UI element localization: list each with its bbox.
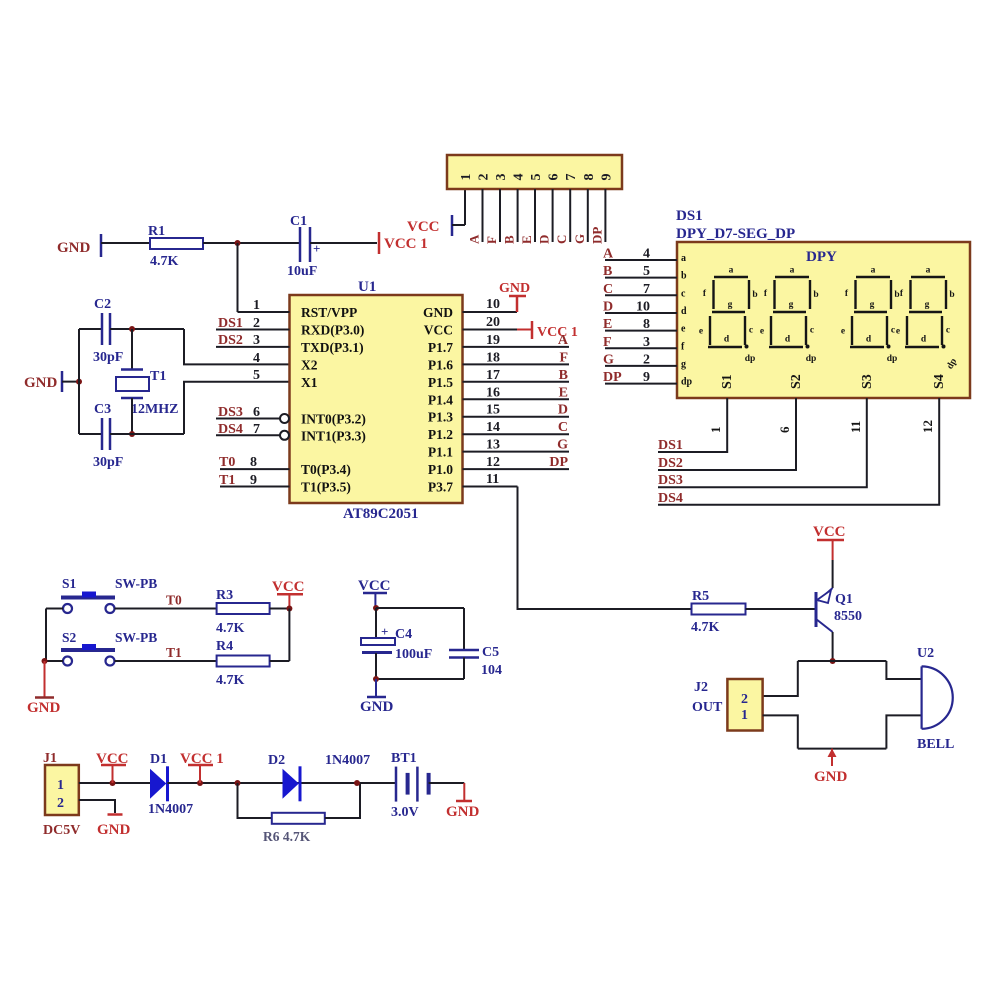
wire (X1 path) xyxy=(110,433,184,435)
svg-text:1N4007: 1N4007 xyxy=(148,802,193,817)
resistor R4 xyxy=(217,656,270,667)
svg-text:12: 12 xyxy=(920,420,935,433)
svg-text:C: C xyxy=(603,282,613,297)
svg-text:4: 4 xyxy=(253,351,260,366)
pin 1 wire (RST) xyxy=(238,311,290,313)
wire pin 2 xyxy=(482,189,484,242)
svg-text:P1.6: P1.6 xyxy=(428,357,453,372)
svg-text:4.7K: 4.7K xyxy=(150,254,179,269)
svg-text:3.0V: 3.0V xyxy=(391,805,419,820)
svg-text:T0: T0 xyxy=(166,593,182,608)
svg-text:12: 12 xyxy=(486,455,500,470)
svg-text:P1.0: P1.0 xyxy=(428,462,453,477)
svg-text:dp: dp xyxy=(745,354,756,364)
svg-text:8: 8 xyxy=(582,174,597,181)
wire (J1 pin1) xyxy=(79,782,150,784)
svg-text:a: a xyxy=(790,266,795,276)
pin 16 wire / net E xyxy=(463,398,570,400)
wire pin 3 xyxy=(499,189,501,242)
wire (J2 pin1) xyxy=(763,715,798,748)
ground GND (switches) xyxy=(44,661,46,697)
svg-text:8: 8 xyxy=(643,317,650,332)
svg-text:BT1: BT1 xyxy=(391,751,417,766)
svg-text:S1: S1 xyxy=(62,576,77,591)
svg-text:19: 19 xyxy=(486,333,500,348)
node xyxy=(76,379,82,385)
svg-text:B: B xyxy=(559,368,568,383)
wire (X2 path) xyxy=(184,329,289,364)
wire xyxy=(101,242,150,244)
pin 17 wire / net B xyxy=(463,381,570,383)
display input wire G pin 2 xyxy=(605,365,677,367)
crystal T1 xyxy=(121,368,143,371)
node xyxy=(110,780,116,786)
svg-text:B: B xyxy=(603,264,612,279)
svg-text:VCC: VCC xyxy=(272,579,305,595)
pin 12 wire / net DP xyxy=(463,468,570,470)
display DS1 body xyxy=(677,242,970,398)
svg-text:3: 3 xyxy=(494,174,509,181)
svg-text:4.7K: 4.7K xyxy=(216,621,245,636)
wire pin 5 xyxy=(534,189,536,242)
svg-text:DP: DP xyxy=(603,370,622,385)
svg-text:G: G xyxy=(572,234,587,244)
wire (VCC rail down) xyxy=(288,609,290,662)
power port VCC (J1) xyxy=(112,765,114,783)
wire (top rail) xyxy=(798,660,887,662)
svg-text:X2: X2 xyxy=(301,357,318,372)
svg-text:R3: R3 xyxy=(216,588,233,603)
svg-text:A: A xyxy=(558,333,569,348)
connector J2 xyxy=(727,679,762,731)
svg-text:GND: GND xyxy=(423,305,453,320)
wire xyxy=(746,608,817,610)
pin 20 wire + VCC1 port xyxy=(463,329,518,331)
svg-text:S2: S2 xyxy=(789,374,804,389)
power port VCC1 (after C1) xyxy=(378,232,381,254)
svg-text:VCC: VCC xyxy=(407,219,440,235)
svg-text:T1: T1 xyxy=(166,645,182,660)
wire xyxy=(429,782,465,784)
svg-text:b: b xyxy=(681,271,687,282)
svg-text:T0: T0 xyxy=(219,455,235,470)
svg-text:GND: GND xyxy=(446,804,480,820)
svg-text:A: A xyxy=(467,234,482,244)
resistor R6 xyxy=(272,813,325,824)
svg-text:12MHZ: 12MHZ xyxy=(131,402,178,417)
svg-text:T1(P3.5): T1(P3.5) xyxy=(301,480,351,495)
svg-text:1N4007: 1N4007 xyxy=(325,753,370,768)
svg-text:e: e xyxy=(681,324,686,335)
svg-text:OUT: OUT xyxy=(692,700,723,715)
pin 10 wire + GND port xyxy=(463,311,518,313)
svg-text:TXD(P3.1): TXD(P3.1) xyxy=(301,340,364,355)
svg-text:+: + xyxy=(381,624,388,639)
svg-text:5: 5 xyxy=(643,264,650,279)
svg-text:U2: U2 xyxy=(917,646,934,661)
svg-text:30pF: 30pF xyxy=(93,455,123,470)
svg-text:P1.5: P1.5 xyxy=(428,375,453,390)
wire xyxy=(376,607,464,609)
svg-text:5: 5 xyxy=(529,174,544,181)
svg-text:C: C xyxy=(558,420,568,435)
svg-text:DS2: DS2 xyxy=(658,456,683,471)
svg-text:a: a xyxy=(871,266,876,276)
svg-text:18: 18 xyxy=(486,350,500,365)
node xyxy=(235,780,241,786)
wire (J1 pin2 to GND) xyxy=(79,800,115,813)
svg-text:b: b xyxy=(752,290,757,300)
svg-text:10uF: 10uF xyxy=(287,264,317,279)
svg-text:C5: C5 xyxy=(482,645,499,660)
pin 18 wire / net F xyxy=(463,363,570,365)
wire xyxy=(62,381,79,383)
svg-text:S2: S2 xyxy=(62,630,77,645)
svg-text:D: D xyxy=(537,235,552,244)
svg-text:DS3: DS3 xyxy=(658,473,683,488)
svg-text:E: E xyxy=(603,317,612,332)
wire (top) xyxy=(79,328,102,330)
svg-text:DPY: DPY xyxy=(806,249,837,265)
svg-text:D: D xyxy=(558,403,568,418)
svg-text:14: 14 xyxy=(486,420,500,435)
svg-text:2: 2 xyxy=(57,796,64,811)
svg-text:R6 4.7K: R6 4.7K xyxy=(263,829,311,844)
svg-text:INT1(P3.3): INT1(P3.3) xyxy=(301,428,366,443)
wire S3 xyxy=(658,398,867,487)
7-segment digit 1 xyxy=(699,266,758,349)
capacitor C2 xyxy=(101,313,104,345)
svg-text:7: 7 xyxy=(564,174,579,181)
wire xyxy=(46,660,63,662)
display input wire B pin 5 xyxy=(605,277,677,279)
svg-text:13: 13 xyxy=(486,438,500,453)
wire S1 xyxy=(658,398,727,452)
resistor R5 xyxy=(692,604,746,615)
svg-text:5: 5 xyxy=(253,368,260,383)
svg-text:E: E xyxy=(559,385,568,400)
pin 11 wire (P3.7) xyxy=(463,486,518,488)
svg-text:VCC 1: VCC 1 xyxy=(180,751,224,767)
svg-text:G: G xyxy=(603,352,614,367)
svg-text:100uF: 100uF xyxy=(395,647,432,662)
wire xyxy=(270,608,290,610)
wire xyxy=(310,242,377,244)
node xyxy=(373,605,379,611)
wire (left rail) xyxy=(78,329,80,434)
diode D1 1N4007 xyxy=(150,769,166,799)
svg-text:dp: dp xyxy=(887,354,898,364)
svg-text:3: 3 xyxy=(643,335,650,350)
capacitor C3 xyxy=(101,418,104,450)
svg-text:b: b xyxy=(949,290,954,300)
svg-text:e: e xyxy=(699,327,703,337)
svg-text:DC5V: DC5V xyxy=(43,823,80,838)
wire xyxy=(203,242,300,244)
svg-text:15: 15 xyxy=(486,403,500,418)
wire S4 xyxy=(658,398,939,505)
display input wire E pin 8 xyxy=(605,330,677,332)
svg-text:GND: GND xyxy=(24,375,58,391)
svg-text:8: 8 xyxy=(250,455,257,470)
svg-text:e: e xyxy=(760,327,764,337)
wire xyxy=(131,329,133,369)
svg-text:4: 4 xyxy=(512,174,527,181)
svg-text:g: g xyxy=(870,300,875,310)
svg-text:R4: R4 xyxy=(216,639,233,654)
svg-text:2: 2 xyxy=(741,692,748,707)
wire xyxy=(270,660,290,662)
svg-text:b: b xyxy=(813,290,818,300)
wire xyxy=(168,782,397,784)
svg-text:c: c xyxy=(810,326,814,336)
node xyxy=(42,658,48,664)
svg-text:C4: C4 xyxy=(395,627,412,642)
svg-text:S1: S1 xyxy=(720,374,735,389)
node xyxy=(129,431,135,437)
svg-text:DP: DP xyxy=(589,227,604,244)
svg-text:DPY_D7-SEG_DP: DPY_D7-SEG_DP xyxy=(676,226,795,242)
transistor Q1 8550 (PNP) xyxy=(815,592,818,627)
svg-text:d: d xyxy=(785,335,791,345)
svg-text:d: d xyxy=(921,335,927,345)
capacitor C5 104 xyxy=(449,649,479,652)
wire xyxy=(115,660,217,662)
svg-text:VCC: VCC xyxy=(813,524,846,540)
svg-text:g: g xyxy=(728,300,733,310)
display input wire D pin 10 xyxy=(605,312,677,314)
svg-text:T0(P3.4): T0(P3.4) xyxy=(301,462,351,477)
svg-text:16: 16 xyxy=(486,385,500,400)
svg-text:1: 1 xyxy=(741,708,748,723)
node (collector) xyxy=(830,658,836,664)
svg-text:A: A xyxy=(603,247,614,262)
svg-text:4: 4 xyxy=(643,247,650,262)
node xyxy=(354,780,360,786)
svg-text:P1.1: P1.1 xyxy=(428,445,453,460)
svg-text:P3.7: P3.7 xyxy=(428,480,453,495)
svg-text:D: D xyxy=(603,300,613,315)
svg-text:a: a xyxy=(681,253,686,264)
svg-text:dp: dp xyxy=(806,354,817,364)
svg-text:GND: GND xyxy=(97,822,131,838)
wire xyxy=(115,608,217,610)
svg-text:GND: GND xyxy=(499,281,530,296)
svg-text:R5: R5 xyxy=(692,589,709,604)
svg-text:U1: U1 xyxy=(358,279,376,295)
svg-text:Q1: Q1 xyxy=(835,592,853,607)
pin 19 wire / net A xyxy=(463,346,570,348)
svg-text:g: g xyxy=(681,359,686,370)
diode D2 1N4007 xyxy=(283,769,299,799)
svg-text:GND: GND xyxy=(360,699,394,715)
svg-text:a: a xyxy=(729,266,734,276)
svg-text:AT89C2051: AT89C2051 xyxy=(343,506,419,522)
svg-text:B: B xyxy=(502,235,517,244)
ground GND (bell) xyxy=(831,749,833,766)
svg-text:9: 9 xyxy=(599,174,614,181)
svg-text:F: F xyxy=(559,350,568,365)
svg-text:d: d xyxy=(866,335,872,345)
svg-text:d: d xyxy=(681,306,687,317)
svg-text:D2: D2 xyxy=(268,753,285,768)
svg-text:4.7K: 4.7K xyxy=(691,620,720,635)
wire pin 9 xyxy=(604,189,606,242)
wire xyxy=(131,398,133,434)
svg-text:104: 104 xyxy=(481,663,502,678)
svg-text:7: 7 xyxy=(643,282,650,297)
svg-text:8550: 8550 xyxy=(834,609,862,624)
svg-text:DS4: DS4 xyxy=(658,491,683,506)
wire xyxy=(832,560,834,588)
svg-text:DS1: DS1 xyxy=(658,438,683,453)
svg-text:P1.4: P1.4 xyxy=(428,392,453,407)
svg-text:2: 2 xyxy=(643,352,650,367)
svg-text:17: 17 xyxy=(486,368,500,383)
svg-text:1: 1 xyxy=(57,778,64,793)
svg-text:dp: dp xyxy=(681,377,693,388)
wire (R6 branch left) xyxy=(238,783,272,818)
svg-text:C1: C1 xyxy=(290,214,307,229)
pin 13 wire / net G xyxy=(463,451,570,453)
ground GND (battery) xyxy=(463,783,465,800)
wire (bottom) xyxy=(79,433,102,435)
wire (S rail) xyxy=(45,609,47,662)
svg-text:S3: S3 xyxy=(860,374,875,389)
svg-text:4.7K: 4.7K xyxy=(216,673,245,688)
svg-text:GND: GND xyxy=(814,769,848,785)
svg-text:J2: J2 xyxy=(694,680,708,695)
svg-text:c: c xyxy=(749,326,753,336)
svg-text:g: g xyxy=(789,300,794,310)
power port VCC1 (J1 row) xyxy=(199,765,201,783)
svg-text:E: E xyxy=(519,235,534,244)
svg-text:P1.2: P1.2 xyxy=(428,427,453,442)
svg-text:VCC: VCC xyxy=(424,323,453,338)
svg-text:11: 11 xyxy=(848,421,863,433)
svg-text:1: 1 xyxy=(708,427,723,434)
svg-text:T1: T1 xyxy=(150,369,166,384)
svg-text:2: 2 xyxy=(477,174,492,181)
node xyxy=(373,676,379,682)
svg-text:DS1: DS1 xyxy=(676,208,703,224)
wire pin 6 xyxy=(552,189,554,242)
svg-text:c: c xyxy=(891,326,895,336)
svg-text:INT0(P3.2): INT0(P3.2) xyxy=(301,412,366,427)
svg-text:RST/VPP: RST/VPP xyxy=(301,305,357,320)
svg-text:SW-PB: SW-PB xyxy=(115,576,157,591)
svg-text:10: 10 xyxy=(636,300,650,315)
node xyxy=(197,780,203,786)
display input wire C pin 7 xyxy=(605,294,677,296)
connector header 1-9 xyxy=(447,155,622,189)
svg-text:GND: GND xyxy=(57,240,91,256)
svg-text:c: c xyxy=(946,326,950,336)
wire (to bell top) xyxy=(886,661,921,679)
svg-text:C2: C2 xyxy=(94,297,111,312)
svg-text:D1: D1 xyxy=(150,752,167,767)
svg-text:11: 11 xyxy=(486,472,499,487)
svg-text:9: 9 xyxy=(643,370,650,385)
node (R1/C1 junction) xyxy=(235,240,241,246)
wire pin 8 xyxy=(587,189,589,242)
svg-text:e: e xyxy=(896,327,900,337)
resistor R1 xyxy=(150,238,203,249)
svg-text:c: c xyxy=(681,288,686,299)
wire xyxy=(46,608,63,610)
svg-text:SW-PB: SW-PB xyxy=(115,630,157,645)
svg-text:VCC: VCC xyxy=(96,751,129,767)
svg-text:g: g xyxy=(925,300,930,310)
svg-text:30pF: 30pF xyxy=(93,350,123,365)
svg-text:10: 10 xyxy=(486,297,500,312)
svg-text:6: 6 xyxy=(547,174,562,181)
svg-text:C: C xyxy=(554,235,569,244)
svg-text:DP: DP xyxy=(549,455,568,470)
display input wire A pin 4 xyxy=(605,259,677,261)
svg-text:d: d xyxy=(724,335,730,345)
wire pin 7 xyxy=(569,189,571,242)
svg-text:F: F xyxy=(603,335,612,350)
capacitor C4 100uF electrolytic xyxy=(375,608,377,639)
resistor R3 xyxy=(217,603,270,614)
svg-text:VCC 1: VCC 1 xyxy=(384,236,428,252)
pin 14 wire / net C xyxy=(463,433,570,435)
svg-text:BELL: BELL xyxy=(917,737,954,752)
display input wire DP pin 9 xyxy=(605,383,677,385)
wire xyxy=(832,632,834,661)
svg-text:P1.3: P1.3 xyxy=(428,410,453,425)
node xyxy=(286,606,292,612)
7-segment digit 3 xyxy=(841,266,900,349)
wire (bell bottom) xyxy=(886,715,921,748)
svg-text:a: a xyxy=(926,266,931,276)
display input wire F pin 3 xyxy=(605,347,677,349)
wire xyxy=(452,224,465,226)
wire S2 xyxy=(658,398,796,470)
wire xyxy=(463,658,465,680)
wire (R6 branch right) xyxy=(325,783,360,818)
svg-text:20: 20 xyxy=(486,315,500,330)
svg-text:P1.7: P1.7 xyxy=(428,340,453,355)
svg-text:R1: R1 xyxy=(148,224,165,239)
svg-text:1: 1 xyxy=(253,298,260,313)
svg-text:G: G xyxy=(557,438,568,453)
wire xyxy=(237,243,239,312)
svg-text:DS2: DS2 xyxy=(218,333,243,348)
ground GND (C4) navy xyxy=(375,679,377,697)
capacitor C1 xyxy=(299,227,302,262)
7-segment digit 4 xyxy=(896,266,955,349)
svg-text:3: 3 xyxy=(253,333,260,348)
IC U1 AT89C2051 xyxy=(290,295,463,503)
wire pin 4 xyxy=(517,189,519,242)
node xyxy=(129,326,135,332)
svg-text:GND: GND xyxy=(27,700,61,716)
ground GND (J1) xyxy=(108,813,123,816)
svg-text:RXD(P3.0): RXD(P3.0) xyxy=(301,323,364,338)
wire xyxy=(110,328,184,330)
svg-text:F: F xyxy=(484,236,499,244)
svg-text:6: 6 xyxy=(777,426,792,433)
wire (to J2 pin2) xyxy=(763,661,798,696)
battery BT1 3.0V xyxy=(395,767,398,802)
svg-text:b: b xyxy=(894,290,899,300)
svg-text:VCC: VCC xyxy=(358,578,391,594)
svg-text:e: e xyxy=(841,327,845,337)
svg-text:C3: C3 xyxy=(94,402,111,417)
svg-text:S4: S4 xyxy=(932,374,947,389)
